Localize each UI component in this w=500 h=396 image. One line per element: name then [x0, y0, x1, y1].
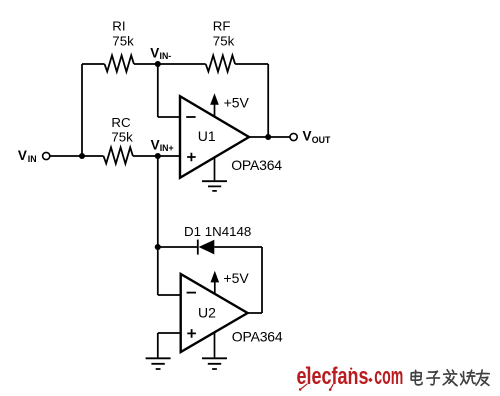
wire RF to top-right corner: [235, 63, 268, 65]
logo chinese char 子: [427, 371, 440, 385]
logo chinese char 电: [411, 370, 422, 385]
svg-text:RF: RF: [213, 18, 231, 33]
node input junction dot: [79, 153, 85, 159]
op-amp U1 minus sign: [186, 116, 195, 118]
wire VIN+ node down to diode node: [157, 156, 159, 247]
supply arrow U2 +5V head: [211, 271, 220, 283]
op-amp U2 minus sign: [187, 292, 196, 294]
svg-text:OUT: OUT: [312, 135, 331, 145]
wire diode node to cathode: [158, 246, 198, 248]
wire to U1 minus input: [158, 116, 180, 118]
logo chinese char 烧: [461, 370, 475, 385]
wire diode node down to U2 minus: [157, 247, 159, 295]
logo chinese char 友: [476, 370, 489, 385]
svg-text:OPA364: OPA364: [232, 329, 283, 345]
ground U2 right stem: [214, 332, 216, 358]
svg-text:com: com: [374, 363, 403, 390]
svg-text:+5V: +5V: [224, 94, 250, 110]
op-amp U2 plus sign: [187, 329, 196, 338]
resistor RI: [105, 55, 134, 71]
wire U1 output to VOUT: [249, 136, 290, 138]
op-amp U1 triangle: [180, 96, 249, 178]
wire VIN- node down: [157, 64, 159, 117]
ground U2 right bars: [202, 358, 227, 369]
svg-text:OPA364: OPA364: [231, 157, 282, 173]
wire node VIN- to RF: [158, 63, 206, 65]
svg-text:D1 1N4148: D1 1N4148: [184, 224, 251, 239]
diode D1 cathode bar: [197, 240, 199, 255]
wire diode anode to corner: [214, 246, 262, 248]
svg-text:V: V: [18, 148, 27, 163]
resistor RC: [104, 147, 133, 163]
svg-text:RC: RC: [111, 115, 131, 130]
node VIN+ junction dot: [155, 153, 161, 159]
wire U2 plus input to left: [158, 332, 181, 334]
svg-text:IN-: IN-: [160, 51, 172, 61]
terminal VOUT circle: [290, 133, 297, 140]
node output junction dot: [265, 134, 271, 140]
svg-text:U1: U1: [198, 128, 216, 144]
svg-text:V: V: [150, 46, 159, 61]
diode D1 triangle: [199, 240, 215, 255]
wire to U2 output: [247, 312, 262, 314]
supply arrow U1 +5V head: [210, 93, 219, 105]
wire input left vertical: [81, 64, 83, 156]
wire VIN terminal to junction: [50, 155, 103, 157]
op-amp U2 triangle: [181, 274, 248, 352]
svg-text:IN: IN: [28, 154, 37, 164]
node diode junction dot: [155, 244, 161, 250]
wire to U2 minus input: [158, 294, 181, 296]
supply arrow U2 +5V stem: [214, 282, 216, 294]
svg-text:IN+: IN+: [160, 143, 174, 153]
svg-text:U2: U2: [198, 304, 216, 320]
svg-text:V: V: [151, 138, 160, 153]
wire RI to node VIN-: [134, 63, 158, 65]
node VIN- junction dot: [155, 61, 161, 67]
logo separator dot: [368, 378, 373, 383]
wire RC to U1 plus input: [133, 155, 180, 157]
svg-text:75k: 75k: [111, 129, 133, 144]
wire top row left segment: [82, 63, 105, 65]
svg-text:RI: RI: [112, 18, 125, 33]
op-amp U1 plus sign: [187, 153, 196, 162]
wire diode right vertical down: [261, 247, 263, 313]
logo chinese char 发: [443, 370, 457, 386]
ground U1 stem: [214, 158, 216, 181]
resistor RF: [206, 55, 235, 71]
svg-text:75k: 75k: [213, 34, 235, 49]
supply arrow U1 +5V stem: [214, 104, 216, 117]
ground U2 left bars: [146, 358, 171, 369]
terminal VIN circle: [43, 152, 50, 159]
ground U1 bars: [202, 181, 227, 191]
svg-text:V: V: [303, 129, 312, 144]
wire U2 plus down to ground: [157, 333, 159, 357]
logo decorative pad circles: [301, 384, 307, 389]
svg-text:75k: 75k: [112, 34, 134, 49]
wire feedback right vertical: [267, 64, 269, 137]
svg-text:+5V: +5V: [223, 270, 249, 286]
